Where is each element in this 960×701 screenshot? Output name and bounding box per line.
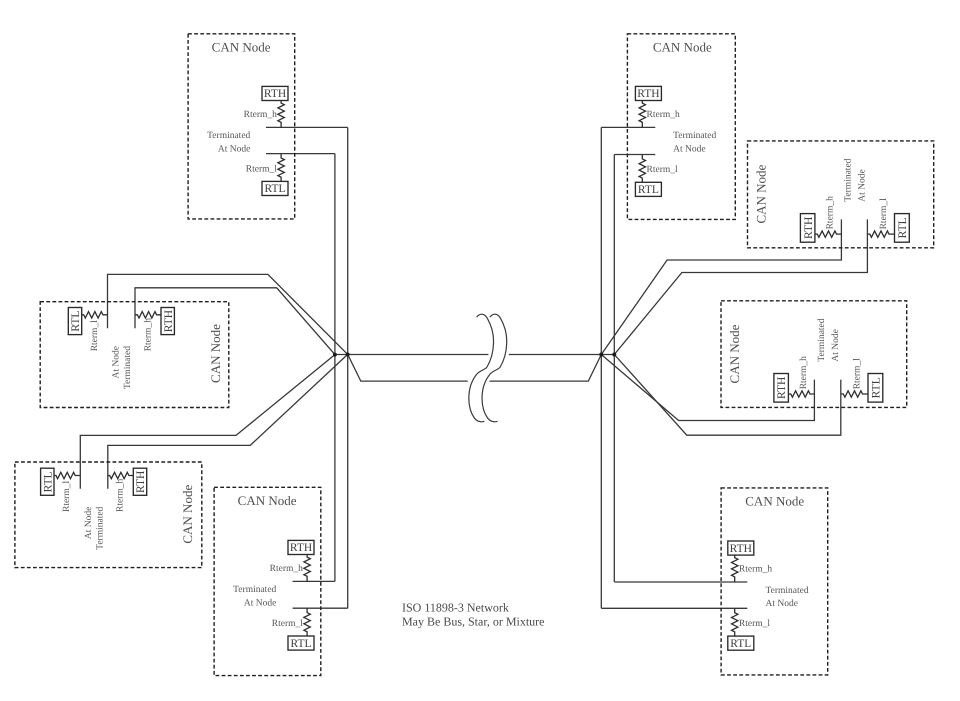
resistor Rterm_h (bottom-left) bbox=[107, 472, 133, 478]
svg-text:RTH: RTH bbox=[290, 542, 312, 554]
svg-text:Terminated: Terminated bbox=[123, 346, 133, 389]
svg-text:Rterm_h: Rterm_h bbox=[116, 479, 126, 512]
CAN node box (top-left) bbox=[188, 34, 295, 219]
svg-text:RTL: RTL bbox=[264, 183, 285, 195]
svg-text:RTH: RTH bbox=[637, 88, 659, 100]
resistor Rterm_l (middle-right) bbox=[841, 391, 868, 397]
bus CAN_L bottom line left segment bbox=[348, 354, 468, 381]
resistor Rterm_l (top-right) bbox=[639, 155, 645, 183]
svg-text:CAN Node: CAN Node bbox=[180, 485, 195, 544]
wire LM RTH to junction (elbow + diagonal) bbox=[135, 288, 335, 355]
svg-text:Rterm_h: Rterm_h bbox=[739, 565, 772, 575]
wire LM RTL to junction (elbow + diagonal) bbox=[108, 274, 348, 354]
resistor Rterm_h (middle-left) bbox=[135, 312, 161, 318]
svg-text:Rterm_l: Rterm_l bbox=[90, 320, 100, 351]
resistor box RTL (bottom-left) bbox=[41, 468, 54, 495]
svg-text:CAN Node: CAN Node bbox=[727, 324, 742, 383]
svg-text:At Node: At Node bbox=[831, 329, 841, 361]
resistor box RTH (top-left) bbox=[262, 86, 288, 100]
svg-text:CAN Node: CAN Node bbox=[238, 493, 297, 508]
wire BL RTL to junction (elbow + diagonal) bbox=[80, 355, 335, 489]
svg-text:At Node: At Node bbox=[218, 145, 250, 155]
svg-text:ISO 11898-3 Network: ISO 11898-3 Network bbox=[402, 601, 509, 615]
junction dot 3 bbox=[599, 353, 603, 357]
resistor box RTH (middle-right) bbox=[774, 374, 789, 403]
svg-text:Rterm_l: Rterm_l bbox=[647, 165, 678, 175]
resistor Rterm_l (bottom-middle) bbox=[304, 608, 310, 636]
svg-text:At Node: At Node bbox=[673, 145, 705, 155]
wire BR RTH to net D bbox=[614, 581, 747, 583]
svg-text:CAN Node: CAN Node bbox=[745, 494, 804, 509]
wire TL RTH to net A bbox=[266, 126, 348, 128]
svg-text:Rterm_h: Rterm_h bbox=[799, 356, 809, 389]
bus break squiggle 2 bbox=[482, 314, 507, 422]
bus break halo 2 bbox=[482, 314, 507, 422]
svg-text:CAN Node: CAN Node bbox=[212, 40, 271, 55]
CAN node box (top-right) bbox=[627, 34, 735, 220]
junction dot 4 bbox=[612, 353, 616, 357]
svg-text:Rterm_h: Rterm_h bbox=[270, 564, 303, 574]
resistor box RTL (middle-left) bbox=[68, 308, 81, 335]
svg-text:Terminated: Terminated bbox=[843, 158, 853, 201]
resistor box RTL (upper-right) bbox=[895, 214, 910, 243]
resistor box RTH (bottom-right) bbox=[728, 541, 754, 555]
svg-text:CAN Node: CAN Node bbox=[653, 40, 712, 55]
resistor Rterm_h (middle-right) bbox=[788, 391, 815, 397]
resistor box RTL (bottom-middle) bbox=[288, 636, 314, 650]
wire vertical net B (TL RTL to BM RTH) bbox=[334, 154, 336, 582]
svg-text:CAN Node: CAN Node bbox=[208, 324, 223, 383]
svg-text:RTL: RTL bbox=[897, 217, 909, 238]
svg-text:Terminated: Terminated bbox=[817, 318, 827, 361]
CAN node box (bottom-right) bbox=[721, 488, 828, 675]
wire TL RTL to net B bbox=[266, 153, 335, 155]
svg-text:RTL: RTL bbox=[638, 184, 659, 196]
svg-text:At Node: At Node bbox=[84, 507, 94, 539]
svg-text:Terminated: Terminated bbox=[96, 506, 106, 549]
CAN node box (upper-right) bbox=[748, 141, 934, 248]
svg-text:Rterm_h: Rterm_h bbox=[143, 318, 153, 351]
svg-text:At Node: At Node bbox=[244, 599, 276, 609]
wire BM RTH to net B bbox=[293, 580, 335, 582]
resistor box RTL (top-left) bbox=[262, 181, 288, 195]
wire vertical net C (TMR RTH to BR RTL) bbox=[600, 127, 602, 608]
svg-text:RTH: RTH bbox=[776, 377, 788, 399]
resistor Rterm_l (bottom-left) bbox=[54, 472, 80, 478]
wire vertical net A (TL RTH to BM RTL) bbox=[347, 127, 349, 608]
wire BL RTH to junction (elbow + diagonal) bbox=[108, 354, 348, 488]
bus CAN_L bottom line right segment bbox=[485, 355, 602, 382]
svg-text:Rterm_h: Rterm_h bbox=[244, 110, 277, 120]
junction dot 1 bbox=[333, 353, 337, 357]
svg-text:Rterm_l: Rterm_l bbox=[272, 619, 303, 629]
bus break squiggle 1 bbox=[469, 314, 494, 422]
svg-text:May Be Bus, Star, or Mixture: May Be Bus, Star, or Mixture bbox=[402, 615, 545, 629]
svg-text:Terminated: Terminated bbox=[233, 585, 276, 595]
CAN node box (bottom-middle) bbox=[214, 487, 321, 675]
bus CAN_H top line right segment bbox=[503, 354, 615, 356]
svg-text:Rterm_l: Rterm_l bbox=[853, 358, 863, 389]
wire RU RTH to junction (elbow + diagonal) bbox=[601, 219, 841, 354]
wire TMR RTH to net C bbox=[601, 126, 655, 128]
svg-text:Rterm_h: Rterm_h bbox=[647, 110, 680, 120]
wire BM RTL to net A bbox=[293, 607, 348, 609]
svg-text:RTL: RTL bbox=[290, 638, 311, 650]
resistor Rterm_h (top-right) bbox=[639, 101, 645, 128]
resistor Rterm_l (upper-right) bbox=[867, 231, 894, 237]
resistor box RTL (top-right) bbox=[635, 182, 661, 196]
junction dot 2 bbox=[346, 352, 350, 356]
resistor Rterm_h (upper-right) bbox=[815, 231, 842, 237]
resistor Rterm_h (bottom-middle) bbox=[304, 555, 310, 582]
bus CAN_H top line left segment bbox=[335, 354, 490, 356]
svg-text:RTH: RTH bbox=[135, 471, 147, 493]
resistor box RTH (bottom-middle) bbox=[288, 540, 314, 554]
resistor box RTL (bottom-right) bbox=[728, 636, 754, 650]
resistor box RTL (middle-right) bbox=[868, 374, 883, 403]
svg-text:RTH: RTH bbox=[803, 217, 815, 239]
CAN node box (bottom-left) bbox=[15, 462, 202, 568]
svg-text:RTH: RTH bbox=[730, 543, 752, 555]
resistor Rterm_l (middle-left) bbox=[81, 312, 107, 318]
resistor box RTH (upper-right) bbox=[800, 214, 815, 243]
svg-text:Terminated: Terminated bbox=[207, 131, 250, 141]
bus break halo 1 bbox=[469, 314, 494, 422]
svg-text:Rterm_h: Rterm_h bbox=[825, 196, 835, 229]
svg-text:Terminated: Terminated bbox=[673, 131, 716, 141]
svg-text:Rterm_l: Rterm_l bbox=[879, 198, 889, 229]
svg-text:RTH: RTH bbox=[264, 88, 286, 100]
wire BR RTL to net C bbox=[601, 607, 747, 609]
wire vertical net D (TMR RTL to BR RTH) bbox=[613, 155, 615, 583]
svg-text:RTH: RTH bbox=[163, 310, 175, 332]
svg-text:Rterm_l: Rterm_l bbox=[62, 481, 72, 512]
resistor box RTH (bottom-left) bbox=[133, 468, 146, 495]
resistor Rterm_l (bottom-right) bbox=[732, 608, 738, 636]
svg-text:At Node: At Node bbox=[857, 169, 867, 201]
CAN node box (middle-left) bbox=[40, 302, 229, 408]
svg-text:RTL: RTL bbox=[42, 471, 54, 492]
svg-text:At Node: At Node bbox=[766, 599, 798, 609]
svg-text:Terminated: Terminated bbox=[766, 586, 809, 596]
resistor Rterm_h (bottom-right) bbox=[732, 555, 738, 582]
wire RU RTL to junction (elbow + diagonal) bbox=[614, 219, 867, 354]
svg-text:At Node: At Node bbox=[112, 346, 122, 378]
wire RM RTL to junction (elbow + diagonal) bbox=[614, 355, 841, 436]
svg-text:Rterm_l: Rterm_l bbox=[246, 164, 277, 174]
svg-text:Rterm_l: Rterm_l bbox=[739, 619, 770, 629]
CAN node box (middle-right) bbox=[721, 301, 907, 408]
svg-text:RTL: RTL bbox=[871, 377, 883, 398]
wire TMR RTL to net D bbox=[614, 154, 655, 156]
svg-text:RTL: RTL bbox=[730, 638, 751, 650]
resistor Rterm_h (top-left) bbox=[278, 101, 284, 128]
svg-text:RTL: RTL bbox=[70, 311, 82, 332]
resistor Rterm_l (top-left) bbox=[278, 154, 284, 182]
svg-text:CAN Node: CAN Node bbox=[753, 164, 768, 223]
resistor box RTH (top-right) bbox=[635, 86, 661, 100]
wire RM RTH to junction (elbow + diagonal) bbox=[601, 355, 814, 421]
resistor box RTH (middle-left) bbox=[161, 308, 174, 335]
